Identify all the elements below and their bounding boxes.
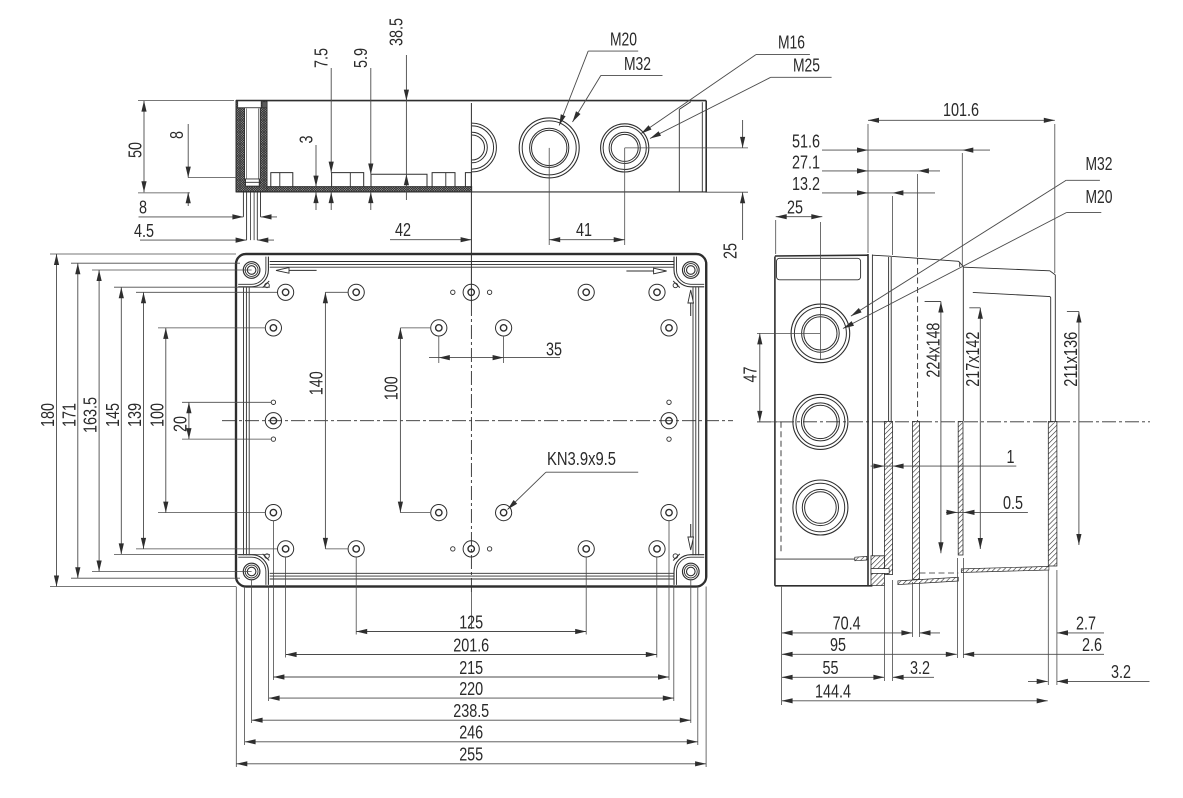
dim 1 (871, 465, 1017, 467)
wall top right block (262, 102, 267, 108)
pilot hole 8 (667, 437, 671, 441)
dim 4.5 (140, 239, 247, 241)
hidden line lid (917, 259, 919, 422)
svg-text:0.5: 0.5 (1003, 493, 1023, 513)
section strip wall A1 (884, 422, 892, 575)
dim 100 left (165, 328, 167, 513)
svg-text:M20: M20 (610, 30, 637, 50)
boss hole 10 (265, 413, 281, 429)
svg-text:144.4: 144.4 (815, 681, 851, 701)
foot screw pillar (242, 192, 244, 217)
plan outer outline (236, 254, 706, 587)
knockout M16/M25 (601, 124, 649, 172)
dim 211x136 (1067, 311, 1079, 313)
lid dome top (964, 267, 1056, 275)
svg-text:100: 100 (382, 376, 402, 400)
svg-text:201.6: 201.6 (453, 635, 489, 655)
svg-text:224x148: 224x148 (923, 323, 943, 378)
boss hole 14 (496, 504, 512, 520)
dim 2.6 (963, 653, 1104, 655)
svg-text:145: 145 (103, 403, 123, 427)
top recess (777, 258, 861, 280)
lid skirt top edge (891, 256, 963, 266)
boss hole 3 (463, 284, 479, 300)
svg-text:215: 215 (459, 658, 483, 678)
gland M32 right view (791, 304, 850, 363)
horizontal centerline plan (222, 420, 733, 422)
dim 3.2 left (893, 676, 934, 678)
wall slot (screw channel) (245, 108, 261, 179)
dim 25 right (742, 120, 744, 148)
lid edge line (244, 262, 699, 580)
svg-text:2.6: 2.6 (1082, 635, 1102, 655)
svg-text:KN3.9x9.5: KN3.9x9.5 (547, 449, 616, 469)
svg-text:101.6: 101.6 (943, 100, 979, 120)
extension lines bottom (355, 557, 357, 635)
boss hole 16 (278, 541, 294, 557)
svg-text:M32: M32 (1086, 154, 1113, 174)
dim 13.2 (822, 192, 935, 194)
boss hole 2 (348, 284, 364, 300)
boss hole 12 (265, 504, 281, 520)
svg-text:4.5: 4.5 (134, 221, 154, 241)
svg-text:3.2: 3.2 (1111, 662, 1131, 682)
svg-text:55: 55 (823, 658, 839, 678)
svg-text:50: 50 (126, 142, 146, 158)
dim 171 (77, 263, 79, 578)
sectioned left wall (236, 101, 267, 192)
corner screw ear 1 (238, 257, 268, 287)
dim 201.6 (286, 654, 657, 656)
dim 139 (143, 292, 145, 549)
wall top notch (238, 101, 262, 108)
dim 8 upper (187, 124, 189, 178)
dim 255 (236, 763, 706, 765)
svg-text:3.2: 3.2 (910, 658, 930, 678)
wall outer line (246, 264, 695, 576)
interior floor line (775, 558, 868, 560)
lid arrow top-right (626, 270, 664, 272)
svg-text:47: 47 (741, 367, 761, 383)
svg-text:42: 42 (395, 220, 411, 240)
extension lines right view (781, 587, 783, 705)
gland center lines (757, 332, 820, 334)
dim 8 lower (139, 216, 244, 218)
lid corner dome (678, 109, 680, 191)
svg-text:5.9: 5.9 (351, 48, 371, 68)
rib 3 (371, 174, 427, 186)
svg-text:163.5: 163.5 (81, 397, 101, 433)
svg-text:27.1: 27.1 (792, 152, 820, 172)
svg-text:M32: M32 (624, 54, 651, 74)
svg-text:41: 41 (576, 220, 592, 240)
svg-text:140: 140 (307, 371, 327, 395)
lid bottom strip outer (961, 566, 1049, 572)
svg-text:8: 8 (139, 197, 147, 217)
svg-text:M25: M25 (793, 55, 820, 75)
dim 140 (324, 292, 326, 549)
svg-text:51.6: 51.6 (792, 132, 820, 152)
svg-text:8: 8 (167, 131, 187, 139)
svg-text:25: 25 (721, 243, 741, 259)
gland mid right view (793, 394, 848, 449)
dim 224x148 (925, 301, 941, 303)
pilot hole 2 (487, 290, 491, 294)
dim 27.1 (822, 170, 940, 172)
svg-text:25: 25 (787, 198, 803, 218)
dim 38.5 (405, 55, 407, 200)
dim 101.6 (868, 119, 1055, 121)
svg-text:1: 1 (1007, 447, 1015, 467)
screw head in slot (246, 179, 260, 186)
svg-text:100: 100 (147, 403, 167, 427)
dim 70.4 (782, 632, 913, 634)
dim 5.9 (370, 68, 372, 175)
right end edges (705, 101, 707, 193)
pilot hole 6 (271, 437, 275, 441)
edge arrow right-up (690, 292, 692, 316)
section strip C (1048, 422, 1057, 567)
ear diagonal tick 2 (673, 281, 680, 288)
pilot hole 3 (451, 547, 455, 551)
knockout M32/M20 (519, 118, 579, 178)
dim 163.5 (98, 270, 100, 572)
boss hole 13 (431, 504, 447, 520)
wall inner line (249, 267, 693, 573)
boss hole 8 (496, 320, 512, 336)
dim 238.5 (252, 719, 691, 721)
boss hole 4 (578, 284, 594, 300)
boss hole 17 (348, 541, 364, 557)
svg-text:7.5: 7.5 (312, 48, 332, 68)
boss hole 5 (649, 284, 665, 300)
section strip A2 (913, 422, 920, 580)
dim 144.4 (782, 700, 1048, 702)
rib 1 (271, 173, 293, 187)
boss hole 7 (431, 320, 447, 336)
dim 215 (273, 676, 669, 678)
dim 55 (782, 676, 885, 678)
svg-text:139: 139 (125, 403, 145, 427)
svg-text:70.4: 70.4 (833, 614, 861, 634)
boss hole 19 (578, 541, 594, 557)
vertical centerline (470, 103, 472, 302)
svg-text:255: 255 (459, 745, 483, 765)
rib 4 (432, 173, 455, 187)
lid dome inner edge (973, 292, 1051, 545)
dim 180 (56, 254, 58, 587)
dim 125 (356, 631, 586, 633)
boss hole 9 (661, 320, 677, 336)
dim 0.5 (946, 511, 1028, 513)
corner screw ear 2 (674, 257, 704, 287)
rib 2 (332, 173, 364, 187)
corner boss section (871, 556, 884, 586)
svg-text:M16: M16 (778, 32, 805, 52)
boss hole 15 (661, 504, 677, 520)
svg-text:220: 220 (459, 679, 483, 699)
boss hole 1 (278, 284, 294, 300)
svg-text:238.5: 238.5 (453, 701, 489, 721)
svg-text:125: 125 (459, 612, 483, 632)
ear diagonal tick 3 (263, 554, 270, 561)
svg-text:211x136: 211x136 (1061, 332, 1081, 387)
svg-text:171: 171 (59, 403, 79, 427)
svg-text:35: 35 (546, 340, 562, 360)
boss hole 11 (661, 413, 677, 429)
floor section piece (855, 556, 867, 560)
dim 220 (269, 697, 674, 699)
pilot hole 5 (271, 400, 275, 404)
centerline right view (757, 421, 1150, 423)
svg-text:95: 95 (830, 635, 846, 655)
dim 3 (315, 145, 317, 187)
svg-text:2.7: 2.7 (1076, 614, 1096, 634)
dim 47 (759, 333, 761, 422)
ear diagonal tick 4 (673, 554, 680, 561)
dim 246 (245, 741, 698, 743)
ear diagonal tick 1 (263, 281, 270, 288)
dim 20 (188, 402, 190, 439)
dim 3.2 right (1028, 680, 1048, 682)
dim 95 (782, 653, 957, 655)
dim 50 (143, 101, 145, 193)
dim 25 top (776, 216, 823, 218)
pilot hole 1 (451, 290, 455, 294)
sectioned floor (267, 187, 472, 192)
svg-text:180: 180 (38, 403, 58, 427)
svg-text:38.5: 38.5 (387, 18, 407, 46)
dim 145 (120, 287, 122, 554)
box wall outer lines (888, 257, 890, 421)
svg-text:3: 3 (297, 136, 317, 144)
lid bottom strip inner (898, 577, 958, 584)
dim 51.6 (822, 149, 990, 151)
dim 2.7 (1057, 632, 1104, 634)
enclosure body top edge (236, 100, 706, 102)
hidden line body (780, 422, 782, 552)
dim 100 mid (399, 328, 401, 513)
dim 217x142 (969, 307, 980, 309)
enclosure bottom edge (236, 191, 706, 193)
hidden bottom line (920, 572, 959, 574)
rib 5 (465, 173, 471, 187)
body outline right view (774, 257, 776, 586)
pilot hole 4 (487, 547, 491, 551)
gland low right view (793, 480, 848, 535)
boss hole 6 (265, 320, 281, 336)
svg-text:13.2: 13.2 (792, 174, 820, 194)
pilot hole 7 (667, 400, 671, 404)
boss hole 20 (649, 541, 665, 557)
dim 35 (438, 336, 440, 363)
dim 41 (549, 239, 625, 241)
svg-text:217x142: 217x142 (963, 332, 983, 387)
svg-text:M20: M20 (1086, 187, 1113, 207)
knockout half (section boundary) (448, 123, 497, 172)
section strip B (958, 422, 963, 556)
edge arrow right-down (690, 524, 692, 548)
slot inner wall lines (245, 109, 247, 179)
boss hole 18 (463, 541, 479, 557)
dim 7.5 (330, 68, 332, 173)
svg-text:20: 20 (170, 416, 190, 432)
svg-text:246: 246 (459, 723, 483, 743)
corner screw ear 3 (238, 555, 268, 585)
corner screw ear 4 (674, 555, 704, 585)
lid arrow top-left (278, 269, 317, 271)
dim 42 (390, 239, 472, 241)
